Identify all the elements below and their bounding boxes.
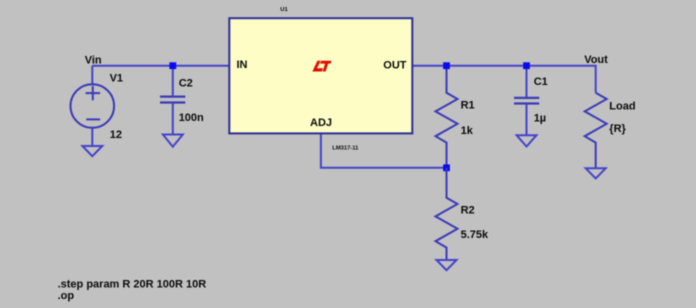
wire C2 stubs [172, 66, 174, 96]
svg-text:12: 12 [110, 129, 122, 141]
ground (V1) [82, 146, 102, 156]
ground (C2) [163, 135, 183, 147]
svg-text:100n: 100n [179, 112, 204, 124]
svg-text:OUT: OUT [383, 60, 407, 72]
svg-text:V1: V1 [110, 73, 123, 85]
node junction OUT/R1 [443, 62, 450, 69]
wire ADJ pin down and right [321, 134, 447, 168]
ground (Load) [586, 168, 606, 178]
ground (R2) [437, 260, 457, 270]
svg-text:5.75k: 5.75k [461, 229, 489, 241]
svg-text:C1: C1 [534, 76, 548, 88]
wire C1 stubs [526, 66, 528, 98]
svg-text:Vout: Vout [584, 54, 608, 66]
ground (C1) [517, 135, 537, 146]
wire V1 bottom stub to ground [91, 128, 93, 147]
svg-text:1µ: 1µ [534, 112, 546, 124]
resistor R2 [436, 168, 458, 260]
svg-text:Load: Load [609, 100, 635, 112]
node junction at C2/Vin [169, 62, 176, 69]
svg-text:1k: 1k [461, 125, 474, 137]
svg-text:{R}: {R} [609, 123, 626, 135]
node junction OUT/C1 [523, 62, 530, 69]
svg-text:IN: IN [237, 59, 248, 71]
svg-text:C2: C2 [179, 78, 193, 90]
voltage source V1 [71, 84, 115, 128]
op-amp U1 regulator box [229, 18, 412, 133]
svg-text:LM317-11: LM317-11 [332, 145, 359, 151]
wire V1 top stub [91, 66, 93, 85]
svg-text:.op: .op [58, 290, 75, 302]
svg-text:R1: R1 [461, 99, 475, 111]
LT logo [312, 61, 331, 72]
wire OUT net: box to Vout corner [412, 66, 595, 93]
capacitor C1 [514, 98, 539, 104]
resistor R1 [436, 66, 458, 168]
capacitor C2 [160, 97, 185, 103]
svg-text:Vin: Vin [85, 54, 102, 66]
svg-text:.step param R 20R 100R 10R: .step param R 20R 100R 10R [58, 278, 207, 290]
resistor Load [585, 93, 607, 169]
svg-text:ADJ: ADJ [310, 117, 332, 129]
svg-text:U1: U1 [280, 7, 288, 13]
wire Vin net: V1 top to IN pin [92, 65, 229, 67]
node junction ADJ/R1/R2 [443, 164, 450, 171]
svg-text:R2: R2 [461, 205, 475, 217]
